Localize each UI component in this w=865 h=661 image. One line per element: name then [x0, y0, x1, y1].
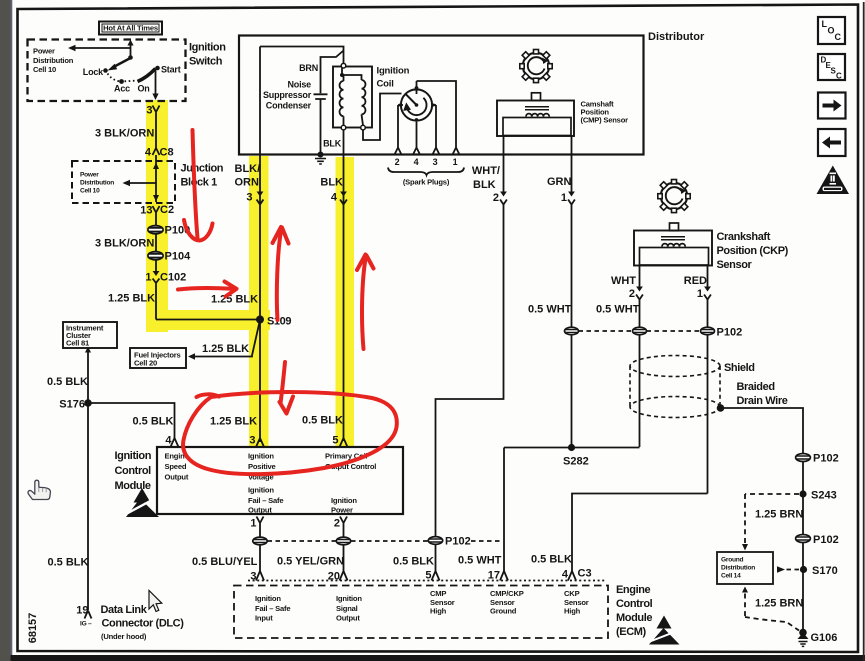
- red pen arrow horizontal at 1.25 BLK: [178, 288, 233, 290]
- rotor: [415, 103, 419, 107]
- distributor cap: [401, 89, 432, 120]
- svg-text:Shield: Shield: [724, 362, 755, 374]
- svg-text:GRN: GRN: [547, 176, 572, 188]
- connector C102: [155, 260, 157, 271]
- ESD warning symbol ECM: [649, 616, 680, 645]
- right window edge line: [863, 2, 865, 661]
- yellow highlight band coil vertical: [336, 157, 355, 446]
- svg-text:Distributor: Distributor: [648, 31, 705, 43]
- svg-text:1.25 BLK: 1.25 BLK: [211, 294, 258, 306]
- wire BLK/ORN vertical inside distributor: [259, 47, 261, 155]
- yellow highlight band left vertical: [146, 100, 168, 332]
- coil bottom terminals: [341, 125, 346, 130]
- svg-text:Ignition: Ignition: [255, 594, 281, 603]
- svg-text:4: 4: [145, 147, 152, 159]
- svg-text:CMP/CKP: CMP/CKP: [490, 589, 524, 598]
- svg-text:Control: Control: [616, 598, 653, 610]
- coil primary winding: [340, 75, 344, 126]
- svg-text:1.25 BLK: 1.25 BLK: [210, 416, 257, 428]
- svg-text:C: C: [836, 72, 842, 81]
- svg-text:Power: Power: [80, 172, 99, 179]
- svg-text:Engine: Engine: [616, 584, 651, 596]
- svg-text:Lock: Lock: [83, 67, 104, 77]
- connector P102 on drain: [796, 453, 839, 465]
- red pen arrow 3 up: [362, 256, 366, 350]
- svg-text:Speed: Speed: [165, 462, 187, 471]
- CKP sensor box: [634, 231, 712, 266]
- wire horizontal to S109: [156, 319, 260, 321]
- svg-text:S176: S176: [59, 399, 85, 411]
- mouse arrow cursor: [149, 591, 162, 612]
- wire branch to condenser: [321, 51, 344, 94]
- svg-text:ORN: ORN: [235, 177, 260, 189]
- node S170: [800, 566, 807, 573]
- dotted travel arc Lock-Acc-On: [108, 74, 120, 82]
- in-line connector on pin1 wire: [253, 537, 267, 545]
- svg-text:CMP: CMP: [430, 589, 446, 598]
- svg-text:20: 20: [328, 571, 340, 583]
- svg-text:Cell 14: Cell 14: [721, 573, 741, 580]
- spark plug wire 4: [413, 122, 419, 154]
- wire GRN/WHT through shield: [572, 335, 640, 448]
- svg-text:Distribution: Distribution: [721, 565, 755, 572]
- svg-text:1.25 BLK: 1.25 BLK: [202, 343, 249, 355]
- svg-text:On: On: [137, 84, 149, 94]
- wire BLK from coil: [343, 130, 345, 155]
- connector P100: [148, 225, 190, 237]
- cap top terminal: [415, 86, 419, 90]
- svg-text:0.5 BLK: 0.5 BLK: [393, 556, 434, 568]
- svg-text:Output: Output: [336, 614, 360, 623]
- svg-text:Acc: Acc: [114, 84, 130, 94]
- svg-text:4: 4: [414, 157, 419, 167]
- ignition coil box: [333, 67, 372, 128]
- svg-text:S243: S243: [811, 490, 837, 502]
- svg-text:Cell 10: Cell 10: [33, 65, 56, 74]
- svg-text:3: 3: [146, 105, 152, 117]
- wire BLK down to ICM pin 5: [343, 155, 345, 442]
- connector P102 lower: [796, 534, 839, 546]
- wire CKP high to ECM pin 4: [572, 494, 708, 572]
- svg-text:3: 3: [433, 157, 438, 167]
- svg-text:1: 1: [250, 518, 256, 530]
- svg-text:(ECM): (ECM): [616, 626, 647, 638]
- CKP gear: [658, 180, 690, 213]
- svg-text:Ignition: Ignition: [115, 450, 152, 462]
- wire down from Start: [155, 71, 157, 95]
- wire CKP WHT to connector: [639, 299, 641, 328]
- svg-text:Switch: Switch: [189, 56, 223, 68]
- svg-text:68157: 68157: [27, 613, 39, 644]
- svg-text:Ignition: Ignition: [331, 496, 357, 505]
- svg-text:High: High: [564, 607, 581, 616]
- svg-text:0.5 WHT: 0.5 WHT: [596, 304, 640, 316]
- CMP sensor box: [497, 101, 574, 137]
- yellow highlight band horizontal: [146, 310, 270, 330]
- svg-text:Ground: Ground: [490, 607, 517, 616]
- yellow highlight band center vertical: [249, 156, 269, 447]
- ground distribution cell 14 box: [717, 552, 773, 584]
- svg-text:C8: C8: [160, 147, 174, 159]
- wire RED through shield: [707, 335, 709, 494]
- wire 0.5 BLK cluster to DLC: [87, 351, 89, 610]
- svg-text:Ignition: Ignition: [189, 42, 226, 54]
- in-line connector on WHT wire: [633, 327, 647, 335]
- svg-text:Braided: Braided: [737, 381, 775, 393]
- wire CKP pin1 RED: [707, 266, 709, 287]
- wire 1.25 BLK down to elbow: [155, 282, 157, 320]
- svg-text:C3: C3: [578, 568, 592, 580]
- red pen tick mark: [281, 362, 286, 403]
- ECM connector dotted line: [248, 580, 606, 582]
- cap bottom terminal: [415, 118, 419, 122]
- left gray sidebar: [0, 0, 11, 661]
- svg-text:BLK: BLK: [473, 179, 496, 191]
- svg-text:5: 5: [332, 435, 338, 447]
- svg-text:BLK: BLK: [323, 139, 342, 149]
- Hot At All Times label box: [99, 22, 162, 35]
- svg-text:Fail – Safe: Fail – Safe: [255, 604, 290, 613]
- CMP gear: [520, 50, 552, 83]
- ignition control module box: [157, 447, 403, 514]
- svg-text:1: 1: [561, 192, 567, 204]
- svg-text:C2: C2: [160, 204, 174, 216]
- contact Lock: [103, 68, 108, 73]
- node drain wire tap: [717, 404, 725, 412]
- wire segment: [155, 213, 157, 226]
- wire CKP pin2 WHT: [639, 266, 641, 287]
- svg-text:Distribution: Distribution: [33, 56, 74, 65]
- fuel injectors cell 20 box: [130, 348, 186, 368]
- button warning triangle: [817, 166, 850, 195]
- svg-text:Ground: Ground: [721, 557, 744, 564]
- svg-text:0.5 WHT: 0.5 WHT: [528, 304, 572, 316]
- contact On thick wiper: [138, 69, 156, 82]
- svg-text:0.5 BLK: 0.5 BLK: [302, 415, 343, 427]
- node S282: [568, 444, 575, 451]
- wire 0.5 YEL/GRN: [343, 545, 345, 571]
- svg-text:Hot At All Times: Hot At All Times: [103, 24, 158, 33]
- svg-text:Block 1: Block 1: [181, 177, 218, 189]
- svg-text:Power: Power: [331, 506, 353, 515]
- svg-text:(CMP) Sensor: (CMP) Sensor: [581, 116, 629, 125]
- shield cylinder dashed: [630, 356, 720, 418]
- svg-text:RED: RED: [684, 275, 707, 287]
- wire S282 to ECM pin 17: [503, 448, 505, 572]
- svg-text:(Under hood): (Under hood): [101, 632, 147, 641]
- svg-text:Ignition: Ignition: [336, 594, 362, 603]
- engine control module dashed box: [234, 586, 608, 639]
- svg-text:2: 2: [629, 288, 635, 300]
- wire arrow to power distribution: [75, 47, 131, 49]
- svg-text:Suppressor: Suppressor: [263, 90, 312, 100]
- dashed connector tie row: [268, 540, 503, 542]
- svg-text:Data Link: Data Link: [101, 604, 148, 616]
- svg-text:Output: Output: [165, 473, 189, 482]
- svg-text:1.25 BLK: 1.25 BLK: [108, 293, 155, 305]
- ground G106: [799, 629, 807, 637]
- svg-text:Cell 20: Cell 20: [134, 359, 157, 368]
- wire S109 branch to fuel injectors: [194, 322, 260, 357]
- svg-text:BLK/: BLK/: [235, 163, 261, 175]
- wire 3 BLK/ORN upper: [155, 112, 157, 148]
- wire 3 BLK/ORN lower: [155, 234, 157, 252]
- wire S176 to ICM pin 4: [88, 403, 175, 438]
- svg-text:CKP: CKP: [564, 589, 580, 598]
- svg-text:3 BLK/ORN: 3 BLK/ORN: [95, 128, 154, 140]
- svg-text:0.5 BLK: 0.5 BLK: [47, 376, 88, 388]
- svg-text:Drain Wire: Drain Wire: [737, 395, 788, 407]
- svg-text:1.25 BRN: 1.25 BRN: [755, 509, 803, 521]
- coil top terminal: [341, 63, 346, 68]
- svg-text:P102: P102: [717, 327, 743, 339]
- svg-text:0.5 BLK: 0.5 BLK: [48, 557, 89, 569]
- svg-text:13: 13: [140, 205, 152, 217]
- CMP shaft stub: [532, 93, 541, 101]
- svg-text:3 BLK/ORN: 3 BLK/ORN: [95, 238, 154, 250]
- button DESC: [818, 54, 845, 81]
- CKP shaft stub: [670, 223, 679, 231]
- wire stem from B+ node: [130, 44, 132, 58]
- svg-text:Fail – Safe: Fail – Safe: [248, 496, 283, 505]
- in-line connector on GRN wire: [565, 327, 579, 335]
- svg-text:Control: Control: [115, 465, 152, 477]
- svg-text:BRN: BRN: [299, 63, 318, 73]
- wire S282 tie: [504, 447, 640, 449]
- svg-text:Module: Module: [115, 480, 151, 492]
- ground of condenser: [318, 152, 324, 158]
- button arrow left: [818, 129, 846, 156]
- spark plug wire 3: [433, 105, 439, 154]
- svg-text:WHT: WHT: [611, 275, 636, 287]
- dashed connector tie line P102 row: [579, 330, 701, 332]
- distributor box: [239, 36, 644, 155]
- svg-text:0.5 BLK: 0.5 BLK: [133, 416, 174, 428]
- arrow to power distribution cell 10: [129, 182, 156, 184]
- cap side terminals: [398, 104, 436, 106]
- capacitor noise suppressor condenser: [314, 94, 328, 99]
- svg-text:0.5 BLK: 0.5 BLK: [531, 554, 572, 566]
- svg-text:Module: Module: [616, 612, 652, 624]
- spark plugs brace: [388, 168, 464, 176]
- svg-text:Condenser: Condenser: [266, 101, 312, 111]
- red pen arrow 2 up: [277, 228, 282, 320]
- svg-text:S170: S170: [812, 565, 838, 577]
- svg-text:Signal: Signal: [336, 604, 358, 613]
- svg-text:C: C: [835, 32, 842, 42]
- svg-text:4: 4: [331, 192, 338, 204]
- svg-text:(Spark Plugs): (Spark Plugs): [403, 178, 450, 187]
- svg-text:Connector (DLC): Connector (DLC): [102, 618, 185, 630]
- svg-text:Crankshaft: Crankshaft: [717, 231, 771, 243]
- node S109: [256, 316, 264, 324]
- wire CKP RED to connector: [707, 299, 709, 328]
- ESD warning symbol ICM: [126, 488, 159, 517]
- in-line connector P102 on RED wire: [701, 327, 715, 335]
- svg-text:BLK: BLK: [320, 177, 343, 189]
- in-line connector on pin2 wire: [336, 537, 350, 545]
- svg-text:Coil: Coil: [377, 79, 394, 90]
- svg-text:2: 2: [493, 192, 499, 204]
- svg-text:O: O: [828, 26, 835, 36]
- svg-text:Noise: Noise: [287, 80, 311, 90]
- contact Start: [155, 66, 160, 71]
- svg-text:Ignition: Ignition: [248, 486, 274, 495]
- hand cursor: [28, 480, 50, 499]
- svg-text:1: 1: [697, 288, 703, 300]
- svg-text:3: 3: [246, 192, 252, 204]
- wire through junction block: [155, 155, 157, 202]
- wire 0.5 BLU/YEL: [259, 545, 261, 571]
- button arrow right: [818, 93, 846, 119]
- svg-text:G106: G106: [811, 632, 838, 644]
- svg-text:0.5 BLU/YEL: 0.5 BLU/YEL: [192, 556, 258, 568]
- red pen circle around ICM pins: [183, 392, 397, 474]
- svg-text:2: 2: [334, 518, 340, 530]
- node S176: [84, 399, 92, 407]
- spark plug wire 2: [395, 105, 401, 154]
- spark plug wire 1: [417, 81, 460, 154]
- dashed branch S243 to ground dist: [745, 494, 799, 544]
- svg-text:S282: S282: [563, 456, 589, 468]
- svg-text:Output: Output: [248, 506, 272, 515]
- svg-text:P102: P102: [813, 453, 839, 465]
- svg-text:0.5 YEL/GRN: 0.5 YEL/GRN: [277, 556, 344, 568]
- wire GRN continues: [571, 204, 573, 328]
- svg-text:1.25 BRN: 1.25 BRN: [755, 598, 803, 610]
- svg-text:Power: Power: [33, 47, 55, 56]
- svg-text:Position (CKP): Position (CKP): [717, 245, 789, 257]
- svg-text:C102: C102: [160, 272, 186, 284]
- wire BLK/ORN down to S109: [259, 155, 261, 443]
- junction block 1 dashed box: [72, 161, 175, 203]
- button LOC: [818, 17, 845, 44]
- dashed arrow ground box to S170: [777, 566, 785, 572]
- svg-text:Positive: Positive: [248, 462, 276, 471]
- ignition switch dashed box: [28, 40, 186, 102]
- bottom black strip: [11, 655, 865, 661]
- node coil junction: [340, 73, 344, 77]
- wire coil HV lead to cap: [363, 94, 402, 141]
- svg-text:Distribution: Distribution: [80, 180, 114, 187]
- svg-text:IG –: IG –: [80, 621, 92, 628]
- node B+: [128, 55, 133, 60]
- svg-text:High: High: [430, 607, 447, 616]
- wire CMP pin1 GRN: [571, 136, 573, 192]
- wire CMP pin2 WHT/BLK: [503, 136, 505, 192]
- svg-text:Sensor: Sensor: [717, 259, 753, 271]
- svg-text:1: 1: [453, 157, 458, 167]
- svg-text:P104: P104: [165, 251, 192, 263]
- connector P102 on CMP high: [428, 536, 470, 548]
- drain wire to ground run: [721, 408, 804, 633]
- red pen arrow 1: [193, 130, 198, 238]
- coil secondary winding: [362, 80, 366, 126]
- svg-text:P102: P102: [813, 534, 839, 546]
- svg-text:0.5 WHT: 0.5 WHT: [458, 555, 502, 567]
- wire top feed: [260, 47, 344, 64]
- svg-text:3: 3: [249, 435, 255, 447]
- svg-text:WHT/: WHT/: [472, 165, 500, 177]
- svg-text:Cell 10: Cell 10: [80, 188, 100, 195]
- dashed branch below ground box: [742, 587, 748, 593]
- svg-text:Ignition: Ignition: [377, 66, 410, 77]
- svg-text:Start: Start: [161, 65, 181, 75]
- connector P104: [148, 251, 191, 263]
- wire CMP high jog: [436, 204, 504, 537]
- svg-text:Ignition: Ignition: [248, 452, 274, 461]
- svg-text:Junction: Junction: [181, 163, 224, 175]
- svg-text:P102: P102: [445, 536, 471, 548]
- svg-text:1: 1: [145, 272, 151, 284]
- switch wiper arrow to Lock: [113, 59, 130, 68]
- svg-text:Input: Input: [255, 614, 273, 623]
- node S243: [799, 490, 806, 497]
- svg-text:2: 2: [395, 157, 400, 167]
- instrument cluster cell 81 box: [63, 322, 117, 348]
- svg-text:Cell 81: Cell 81: [66, 339, 90, 348]
